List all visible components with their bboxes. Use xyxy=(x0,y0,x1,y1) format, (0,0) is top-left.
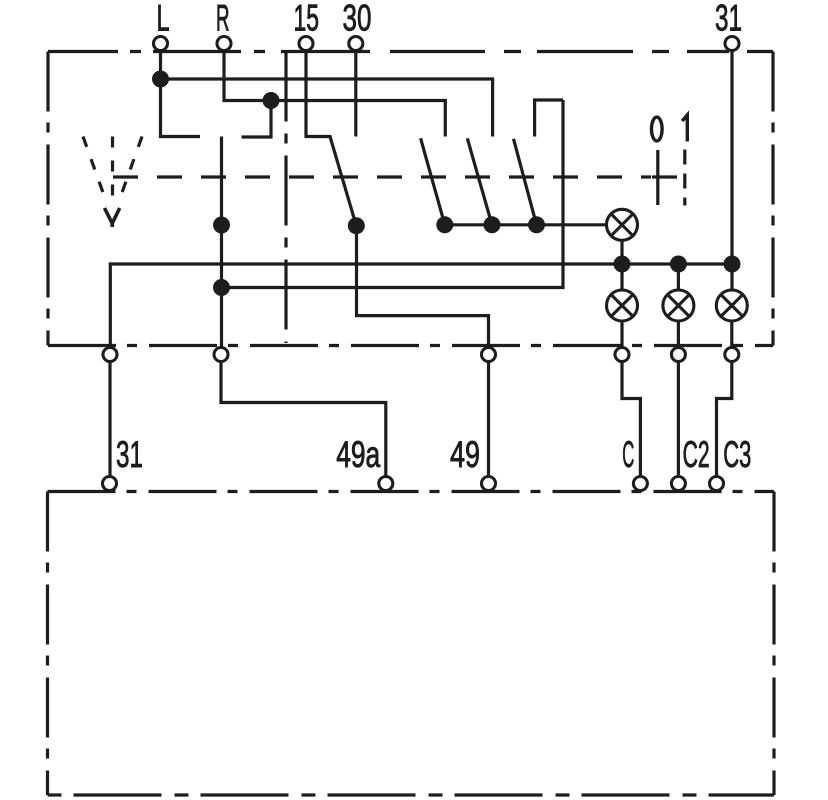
svg-text:49: 49 xyxy=(450,434,480,475)
svg-text:30: 30 xyxy=(343,0,372,39)
svg-text:49a: 49a xyxy=(336,434,380,475)
svg-text:31: 31 xyxy=(116,434,143,475)
svg-text:C2: C2 xyxy=(683,434,710,475)
svg-text:31: 31 xyxy=(715,0,742,39)
svg-text:15: 15 xyxy=(294,0,320,39)
svg-text:L: L xyxy=(157,0,170,39)
svg-text:R: R xyxy=(216,0,230,39)
svg-text:C: C xyxy=(622,434,634,475)
svg-text:C3: C3 xyxy=(723,434,751,475)
